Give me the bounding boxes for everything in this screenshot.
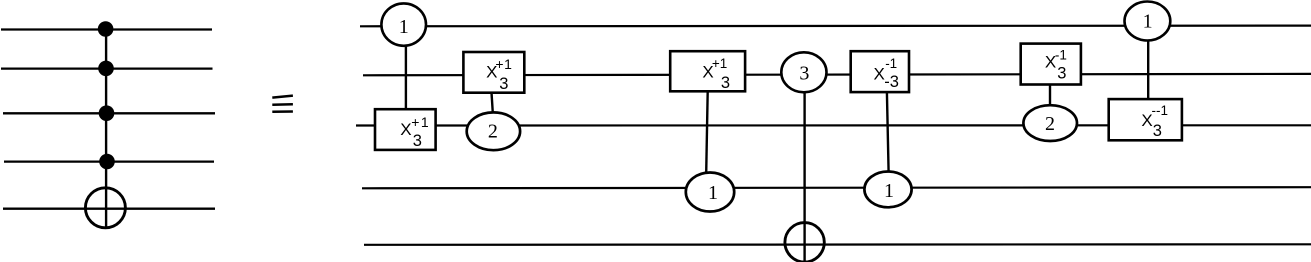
svg-text:1: 1 <box>708 182 718 204</box>
svg-text:X: X <box>400 120 411 139</box>
svg-text:3: 3 <box>413 132 422 150</box>
svg-text:3: 3 <box>1153 122 1162 140</box>
control vertical wire <box>105 30 107 228</box>
gate box X+1_3 mid on wire q1 <box>670 51 745 91</box>
svg-text:2: 2 <box>488 120 498 142</box>
svg-text:--1: --1 <box>1152 103 1169 118</box>
connector box5 to ellipse 2b <box>1049 84 1051 106</box>
control ellipse 1 on wire q3 <box>686 173 734 212</box>
gate box X-1_-3 on wire q1 <box>851 51 909 92</box>
svg-text:3: 3 <box>799 62 809 84</box>
wire q3 left <box>4 160 214 162</box>
wire q4 left <box>3 208 215 210</box>
svg-text:+1: +1 <box>411 114 430 130</box>
control dot q1 <box>98 61 114 77</box>
equivalence symbol <box>272 96 293 112</box>
label X-1_-3 <box>874 56 899 91</box>
svg-text:+1: +1 <box>712 56 727 71</box>
wire q4 right <box>364 243 1311 246</box>
connector circle 3 to target <box>803 92 805 260</box>
wire q1 right <box>363 74 1311 75</box>
label X+1_3 <box>400 114 430 150</box>
svg-text:2: 2 <box>1045 113 1055 135</box>
gate box X-1_3 on wire q1 <box>1021 44 1081 85</box>
gate box X+1_3 on wire q1 <box>463 52 524 93</box>
label X--1_3 <box>1141 103 1168 140</box>
control dot q0 <box>98 21 114 37</box>
wire q0 right <box>360 25 1311 28</box>
connector box2 to ellipse 2 <box>492 93 493 114</box>
label X+1_3 <box>702 56 730 92</box>
svg-text:+1: +1 <box>495 56 512 72</box>
svg-text:1: 1 <box>399 16 409 38</box>
control ellipse 2 on wire q2 <box>467 112 520 150</box>
svg-text:3: 3 <box>1057 65 1066 83</box>
connector box3 to ellipse 1 <box>706 91 708 173</box>
wire q1 left <box>1 67 213 69</box>
control circle 1b on wire q0 <box>1125 2 1171 41</box>
label X+1_3 <box>486 56 512 93</box>
connector box4 to ellipse 1b <box>887 92 889 172</box>
control ellipse 1b on wire q3 <box>864 172 911 208</box>
control circle 1 on wire q0 <box>381 3 426 45</box>
gate box X+1_3 on wire q2 <box>375 109 436 150</box>
svg-text:3: 3 <box>499 75 508 93</box>
svg-text:1: 1 <box>1143 10 1153 32</box>
svg-text:-3: -3 <box>884 73 899 91</box>
connector circle1 to box X+1_3 <box>405 46 407 110</box>
wire q3 right <box>362 187 1311 188</box>
wire q2 left <box>3 112 215 114</box>
label X-1_3 <box>1045 47 1067 82</box>
control ellipse 2b on wire q2 <box>1023 105 1077 141</box>
CNOT target on wire q4 right <box>785 223 824 262</box>
control dot q3 <box>99 154 115 170</box>
wire q0 left <box>1 28 212 30</box>
svg-text:-1: -1 <box>885 56 897 71</box>
connector circle 1b to box6 <box>1147 40 1149 99</box>
svg-text:X: X <box>874 64 885 83</box>
svg-text:1: 1 <box>884 180 894 202</box>
control dot q2 <box>99 105 115 121</box>
gate box X--1_3 on wire q2 <box>1109 99 1182 140</box>
wire q2 right <box>356 124 1311 126</box>
svg-text:3: 3 <box>721 74 730 92</box>
svg-text:-1: -1 <box>1055 47 1067 62</box>
control circle 3 on wire q1 <box>781 52 826 92</box>
CNOT target q4 left <box>85 188 125 228</box>
